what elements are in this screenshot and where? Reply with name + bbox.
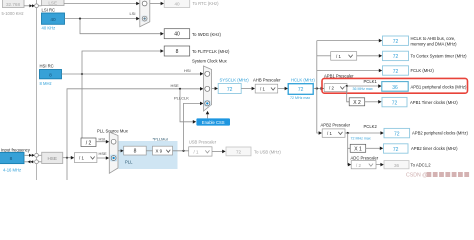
AHB prescaler dropdown bbox=[255, 84, 278, 93]
svg-text:HSI: HSI bbox=[184, 68, 191, 73]
APB2 prescaler dropdown bbox=[322, 129, 345, 137]
svg-text:HSE: HSE bbox=[47, 156, 56, 161]
Enable CSS button bbox=[196, 118, 230, 125]
HSE prescaler dropdown /1 bbox=[74, 153, 97, 163]
svg-text:X 1: X 1 bbox=[354, 146, 362, 152]
Cortex prescaler dropdown bbox=[331, 52, 357, 61]
svg-text:To IWDG (KHz): To IWDG (KHz) bbox=[192, 32, 221, 37]
svg-text:To USB (MHz): To USB (MHz) bbox=[254, 150, 281, 155]
wire junction down to APB2 bbox=[317, 89, 319, 134]
svg-text:APB1 peripheral clocks (MHz): APB1 peripheral clocks (MHz) bbox=[411, 84, 467, 89]
svg-text:72: 72 bbox=[393, 69, 399, 75]
wire branch to HCLK AHB output bbox=[317, 40, 379, 42]
svg-text:LSE: LSE bbox=[48, 1, 57, 6]
wire LSE to RTC mux bbox=[64, 3, 137, 5]
wire LSI to RTC mux bbox=[65, 18, 138, 20]
wire AHB to HCLK bbox=[278, 88, 285, 90]
svg-text:8: 8 bbox=[10, 156, 13, 162]
svg-text:PLL: PLL bbox=[125, 159, 133, 164]
chip boundary line bbox=[36, 0, 38, 180]
svg-text:72: 72 bbox=[394, 131, 400, 137]
node CSS tap junction bbox=[179, 88, 181, 90]
ADC output box bbox=[384, 161, 409, 169]
To RTC output box bbox=[164, 0, 190, 8]
svg-text:To RTC (KHz): To RTC (KHz) bbox=[193, 1, 220, 6]
svg-text:72: 72 bbox=[393, 54, 399, 60]
HSE oscillator block bbox=[42, 152, 63, 163]
wire /2 to PLL mux bbox=[96, 141, 106, 143]
To IWDG output box bbox=[164, 29, 190, 39]
wire X2 to APB1 timer box bbox=[365, 101, 379, 103]
PCLK2 value box bbox=[384, 128, 410, 137]
svg-text:System Clock Mux: System Clock Mux bbox=[192, 59, 228, 64]
wire HSE junction down (off crop) bbox=[66, 158, 68, 180]
OSC_OUT pin circle bbox=[35, 160, 39, 164]
HSI RC oscillator block bbox=[40, 70, 62, 79]
wire HSI to FLITFCLK bbox=[82, 51, 161, 74]
svg-text:72: 72 bbox=[393, 147, 399, 153]
svg-text:Input frequency: Input frequency bbox=[1, 147, 31, 152]
LSE pin circle bbox=[35, 4, 39, 8]
svg-text:72: 72 bbox=[227, 87, 233, 93]
APB1 timer value box bbox=[382, 97, 407, 106]
wire HSI down to PLL /2 divider bbox=[81, 74, 83, 138]
svg-text:Enable CSS: Enable CSS bbox=[202, 120, 225, 125]
svg-text:72: 72 bbox=[298, 87, 304, 93]
wire OSC_OUT bbox=[24, 161, 34, 163]
node LSI junction bbox=[79, 18, 81, 20]
node APB2 junction bbox=[347, 132, 349, 134]
svg-text:40: 40 bbox=[50, 17, 56, 23]
wire HSE up to system clock mux bbox=[67, 89, 201, 158]
svg-text:72 MHz max: 72 MHz max bbox=[351, 136, 371, 140]
wire APB2 to PCLK2 box bbox=[345, 132, 381, 134]
svg-text:PLLCLK: PLLCLK bbox=[174, 95, 189, 100]
svg-text:72 MHz max: 72 MHz max bbox=[290, 96, 310, 100]
wires pins to HSE block bbox=[38, 154, 41, 156]
wire ADC prescaler to box bbox=[376, 164, 381, 166]
svg-text:SYSCLK (MHz): SYSCLK (MHz) bbox=[220, 77, 250, 82]
ADC prescaler dropdown bbox=[351, 161, 376, 169]
svg-text:40: 40 bbox=[174, 32, 180, 38]
LSE input frequency box 32.768 bbox=[3, 0, 25, 8]
APB1 highlight red box bbox=[322, 78, 468, 93]
wire HCLK branch up bbox=[316, 41, 318, 89]
svg-text:To ADC1,2: To ADC1,2 bbox=[411, 162, 432, 167]
svg-text:/ 2: / 2 bbox=[86, 140, 92, 146]
wire branch to FCLK bbox=[317, 70, 379, 72]
PLL /2 fixed divider bbox=[81, 138, 96, 147]
svg-text:8 MHz: 8 MHz bbox=[40, 81, 52, 86]
wire PLLCLK to system clock mux bbox=[184, 103, 201, 150]
node APB1 junction bbox=[346, 85, 348, 87]
svg-text:4-16 MHz: 4-16 MHz bbox=[3, 168, 21, 173]
svg-text:APB1 Timer clocks (MHz): APB1 Timer clocks (MHz) bbox=[410, 100, 458, 105]
svg-text:36 MHz max: 36 MHz max bbox=[353, 87, 373, 91]
wire USB prescaler to USB box bbox=[212, 150, 223, 152]
svg-text:memory and DMA (MHz): memory and DMA (MHz) bbox=[411, 41, 458, 46]
svg-text:X 2: X 2 bbox=[353, 100, 361, 106]
svg-text:36: 36 bbox=[392, 85, 398, 91]
svg-text:/ 2: / 2 bbox=[329, 86, 334, 91]
svg-text:8: 8 bbox=[134, 149, 137, 155]
svg-text:AHB Prescaler: AHB Prescaler bbox=[253, 77, 281, 82]
HCLK value box bbox=[288, 84, 313, 95]
wire APB2 down to ADC prescaler bbox=[347, 148, 350, 164]
svg-text:HSI RC: HSI RC bbox=[40, 64, 54, 69]
svg-text:FCLK (MHz): FCLK (MHz) bbox=[411, 68, 435, 73]
svg-text:8: 8 bbox=[176, 49, 179, 55]
node PLL output junction bbox=[182, 150, 184, 152]
PLL source mux bbox=[109, 132, 118, 173]
svg-text:72: 72 bbox=[393, 39, 399, 45]
wire APB1 down to X2 bbox=[347, 86, 349, 102]
wire APB2 down to X1 bbox=[348, 133, 350, 148]
PLL panel bbox=[119, 141, 178, 169]
svg-text:LSI: LSI bbox=[130, 11, 136, 16]
FCLK output box bbox=[383, 66, 409, 75]
wire HSE output bbox=[63, 157, 72, 159]
svg-text:/ 2: / 2 bbox=[356, 163, 361, 168]
svg-text:HSI: HSI bbox=[99, 136, 106, 141]
svg-text:/ 1: / 1 bbox=[327, 131, 332, 136]
svg-text:40: 40 bbox=[174, 2, 180, 7]
wire LSI to IWDG bbox=[80, 19, 161, 34]
svg-text:X 9: X 9 bbox=[156, 149, 163, 154]
svg-text:PCLK2: PCLK2 bbox=[364, 124, 378, 129]
svg-text:APB2 Prescaler: APB2 Prescaler bbox=[321, 122, 351, 127]
RTC clock mux bbox=[140, 0, 150, 27]
wire APB1 to PCLK1 box bbox=[347, 85, 379, 87]
PCLK1 value box bbox=[382, 82, 408, 92]
wire CSS up into mux bbox=[207, 114, 209, 119]
svg-text:USB Prescaler: USB Prescaler bbox=[189, 140, 217, 145]
APB2 timer value box bbox=[384, 144, 409, 153]
node HSI junction bbox=[81, 73, 83, 75]
system clock mux bbox=[204, 66, 212, 111]
svg-text:LSI RC: LSI RC bbox=[42, 7, 56, 12]
wire junction into APB1 bbox=[318, 88, 321, 90]
svg-text:/ 1: / 1 bbox=[260, 87, 265, 92]
wire mux to PLL input bbox=[118, 150, 121, 152]
wire Cortex prescaler to box bbox=[357, 55, 379, 57]
watermark bbox=[406, 172, 469, 178]
HCLK AHB output box bbox=[383, 36, 409, 45]
To USB output box bbox=[226, 147, 251, 156]
wire branch to Cortex prescaler bbox=[317, 55, 331, 57]
svg-text:HSE: HSE bbox=[171, 83, 180, 88]
wire OSC_IN bbox=[24, 154, 32, 156]
wire HSE prescaler to PLL mux bbox=[97, 157, 106, 159]
SYSCLK value box bbox=[218, 84, 241, 94]
OSC_IN pin circle bbox=[35, 153, 39, 157]
svg-text:APB2 peripheral clocks (MHz): APB2 peripheral clocks (MHz) bbox=[412, 131, 468, 136]
svg-text:/ 1: / 1 bbox=[194, 149, 199, 154]
USB prescaler dropdown bbox=[189, 147, 212, 156]
wire PLLMul to X9 bbox=[146, 150, 152, 152]
svg-text:ADC Prescaler: ADC Prescaler bbox=[351, 155, 379, 160]
svg-text:/ 1: / 1 bbox=[79, 155, 84, 160]
svg-text:40 KHz: 40 KHz bbox=[42, 26, 56, 31]
PLL input value box bbox=[124, 146, 147, 155]
wire HCLK to junction bbox=[313, 88, 319, 90]
X2 multiplier box bbox=[349, 98, 365, 106]
wire pin to LSE bbox=[38, 5, 41, 7]
wire LSE input to pin bbox=[24, 5, 32, 7]
LSI RC oscillator block bbox=[42, 13, 65, 24]
X1 multiplier box bbox=[350, 144, 366, 152]
svg-text:/ 1: / 1 bbox=[336, 54, 341, 59]
wire PLL output bbox=[173, 150, 189, 152]
svg-text:8: 8 bbox=[49, 73, 52, 79]
svg-text:5-1000 KHz: 5-1000 KHz bbox=[2, 11, 24, 16]
svg-text:32.768: 32.768 bbox=[6, 2, 20, 7]
svg-text:PLL Source Mux: PLL Source Mux bbox=[97, 128, 129, 133]
svg-text:HSE: HSE bbox=[99, 151, 108, 156]
HSE input frequency box bbox=[0, 152, 24, 163]
wire SYSCLK to AHB prescaler bbox=[241, 88, 252, 90]
APB1 prescaler dropdown bbox=[324, 84, 347, 92]
wire RTC mux output bbox=[150, 3, 161, 5]
svg-text:APB2 timer clocks (MHz): APB2 timer clocks (MHz) bbox=[411, 146, 458, 151]
To FLITFCLK output box bbox=[164, 46, 190, 56]
svg-text:72: 72 bbox=[236, 149, 242, 154]
node HCLK junction bbox=[316, 87, 318, 89]
svg-text:CSDN @: CSDN @ bbox=[406, 172, 427, 178]
svg-text:PCLK1: PCLK1 bbox=[364, 79, 378, 84]
svg-text:*PLLMul: *PLLMul bbox=[153, 136, 168, 141]
svg-text:36: 36 bbox=[394, 163, 400, 168]
wire sysmux output bbox=[212, 88, 215, 90]
svg-text:To Cortex System timer (MHz): To Cortex System timer (MHz) bbox=[411, 53, 468, 58]
svg-text:72: 72 bbox=[392, 100, 398, 106]
wire X1 to APB2 timer box bbox=[366, 147, 380, 149]
node HSE junction bbox=[66, 157, 68, 159]
svg-text:HCLK (MHz): HCLK (MHz) bbox=[291, 77, 315, 82]
wire CSS tap to Enable CSS bbox=[180, 89, 193, 122]
svg-text:To FLITFCLK (MHz): To FLITFCLK (MHz) bbox=[192, 49, 230, 54]
Cortex timer output box bbox=[383, 51, 409, 60]
LSE oscillator block bbox=[42, 0, 65, 6]
wire HSI to system clock mux bbox=[62, 73, 201, 75]
PLLMul dropdown X9 bbox=[153, 146, 173, 155]
